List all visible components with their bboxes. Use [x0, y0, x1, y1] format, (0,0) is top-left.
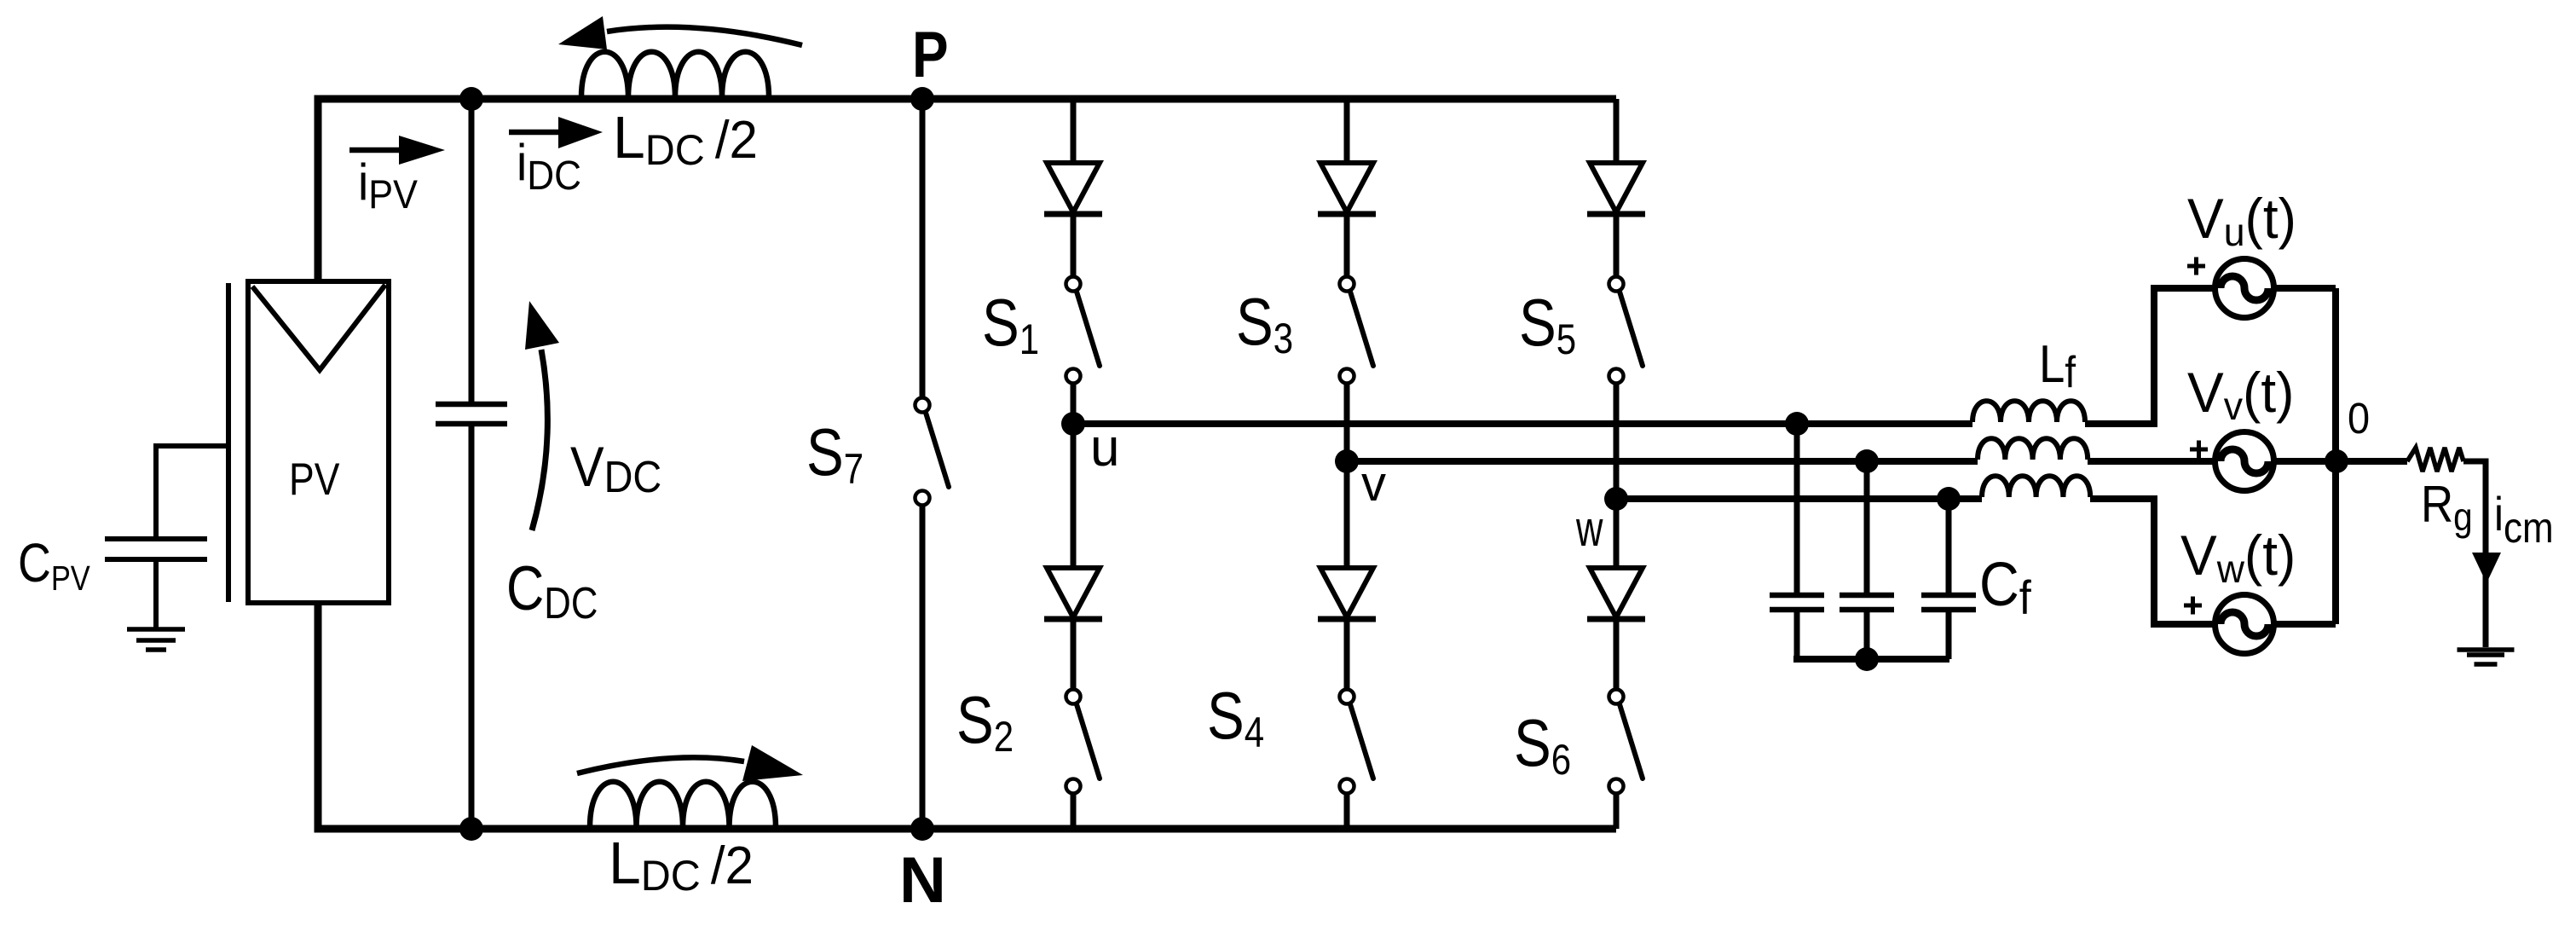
svg-text:iDC: iDC — [517, 135, 581, 198]
junction Cf3 — [1937, 487, 1961, 511]
wire — [1344, 384, 1350, 461]
capacitor Cf1 — [1770, 595, 1824, 610]
current arrow iDC — [509, 117, 603, 148]
svg-text:S2: S2 — [956, 684, 1014, 761]
wire — [2273, 285, 2336, 292]
diode D2 — [1044, 568, 1102, 619]
svg-text:iPV: iPV — [358, 154, 418, 217]
capacitor Cf2 — [1840, 595, 1894, 610]
node 0 — [2325, 449, 2348, 473]
wire w to source — [2090, 499, 2215, 624]
svg-text:CDC: CDC — [506, 554, 598, 628]
wire — [1794, 424, 1800, 593]
svg-text:0: 0 — [2348, 395, 2370, 443]
current direction arrow bottom — [577, 745, 803, 781]
svg-text:Vw(t): Vw(t) — [2180, 524, 2296, 591]
inductor Lf v — [1978, 438, 2088, 460]
current direction arrow top — [558, 16, 802, 49]
source Vv — [2215, 432, 2274, 491]
wire — [1344, 794, 1350, 829]
wire — [1614, 216, 1620, 276]
svg-text:Rg: Rg — [2421, 476, 2473, 540]
wire — [2273, 621, 2336, 628]
svg-text:CPV: CPV — [18, 532, 90, 599]
capacitor CDC — [436, 404, 507, 424]
svg-text:S7: S7 — [806, 416, 863, 493]
svg-text:S1: S1 — [982, 286, 1039, 363]
wire — [2463, 461, 2486, 647]
resistor Rg — [2407, 448, 2463, 472]
diode D6 — [1587, 568, 1645, 619]
wire Cf common bus — [1793, 656, 1949, 663]
svg-text:P: P — [912, 18, 949, 91]
wire — [1071, 424, 1077, 568]
wire phase v — [1347, 458, 1978, 465]
source Vw — [2215, 595, 2274, 654]
junction CDC bottom — [459, 817, 483, 841]
wire — [1614, 384, 1620, 499]
wire — [1614, 794, 1620, 829]
wire — [1946, 612, 1952, 659]
svg-text:w: w — [1575, 501, 1603, 556]
wire — [1946, 499, 1952, 593]
junction Cf bus — [1855, 647, 1879, 671]
wire — [1614, 499, 1620, 568]
svg-text:Lf: Lf — [2039, 335, 2076, 397]
node v — [1335, 449, 1359, 473]
inductor LDC/2 top — [581, 52, 769, 97]
svg-text:PV: PV — [289, 454, 340, 504]
wire — [1344, 216, 1350, 276]
junction CDC top — [459, 87, 483, 111]
voltage arrow VDC — [525, 301, 559, 530]
switch S7 — [915, 398, 950, 506]
diode D4 — [1318, 568, 1376, 619]
junction Cf2 — [1855, 449, 1879, 473]
inductor LDC/2 bottom — [590, 782, 776, 827]
wire right bus — [2332, 288, 2339, 624]
wire phase w — [1616, 495, 1982, 502]
svg-text:icm: icm — [2494, 488, 2554, 552]
svg-text:Cf: Cf — [1979, 550, 2031, 625]
junction Cf1 — [1785, 412, 1809, 436]
svg-text:Vv(t): Vv(t) — [2187, 361, 2294, 428]
wire u to source — [2085, 288, 2215, 424]
diode D3 — [1318, 163, 1376, 214]
plus Vv — [2190, 441, 2208, 459]
svg-text:Vu(t): Vu(t) — [2187, 187, 2296, 254]
PV module — [248, 281, 389, 603]
node P — [910, 87, 934, 111]
wire phase u — [1073, 420, 1972, 427]
svg-text:S4: S4 — [1207, 680, 1264, 756]
wire — [1614, 621, 1620, 689]
svg-text:VDC: VDC — [570, 436, 661, 501]
diode D5 — [1587, 163, 1645, 214]
wire bottom bus N rail — [318, 604, 1616, 829]
wire — [1071, 794, 1077, 829]
wire — [1344, 461, 1350, 568]
ground — [2458, 650, 2515, 664]
wire — [1071, 384, 1077, 424]
wire — [1071, 216, 1077, 276]
wire — [2336, 458, 2407, 465]
switch S6 — [1609, 690, 1643, 794]
wire — [469, 426, 475, 829]
plus Vw — [2184, 597, 2202, 615]
wire — [1071, 621, 1077, 689]
wire — [1344, 621, 1350, 689]
node w — [1604, 487, 1628, 511]
switch S5 — [1609, 277, 1643, 384]
wire CPV connection — [156, 446, 226, 536]
wire — [153, 562, 159, 628]
svg-text:LDC /2: LDC /2 — [613, 104, 758, 174]
svg-text:u: u — [1090, 419, 1119, 477]
wire — [920, 505, 926, 829]
wire — [1794, 612, 1800, 659]
svg-text:N: N — [899, 844, 946, 917]
diode D1 — [1044, 163, 1102, 214]
wire v to source — [2088, 458, 2215, 465]
PV left plate — [226, 283, 231, 602]
capacitor Cf3 — [1921, 595, 1976, 610]
wire — [1864, 612, 1870, 659]
inductor Lf w — [1982, 476, 2090, 497]
wire — [1864, 461, 1870, 593]
wire — [1614, 99, 1620, 163]
wire — [1344, 99, 1350, 163]
capacitor CPV — [105, 539, 207, 559]
node N — [910, 817, 934, 841]
switch S3 — [1340, 277, 1374, 384]
plus Vu — [2187, 258, 2205, 275]
current arrow iPV — [349, 136, 445, 165]
switch S4 — [1340, 690, 1374, 794]
wire — [1071, 99, 1077, 163]
wire — [920, 99, 926, 397]
switch S1 — [1066, 277, 1100, 384]
ground — [127, 629, 185, 650]
svg-text:S3: S3 — [1236, 286, 1293, 362]
wire top bus P rail — [318, 99, 1616, 281]
svg-text:LDC /2: LDC /2 — [609, 830, 754, 900]
wire — [2273, 458, 2336, 465]
inductor Lf u — [1972, 401, 2085, 422]
node u — [1061, 412, 1085, 436]
current arrow icm — [2472, 553, 2501, 583]
source Vu — [2215, 259, 2274, 318]
switch S2 — [1066, 690, 1100, 794]
svg-text:S5: S5 — [1519, 286, 1576, 363]
wire — [469, 99, 475, 402]
svg-text:S6: S6 — [1514, 707, 1571, 784]
